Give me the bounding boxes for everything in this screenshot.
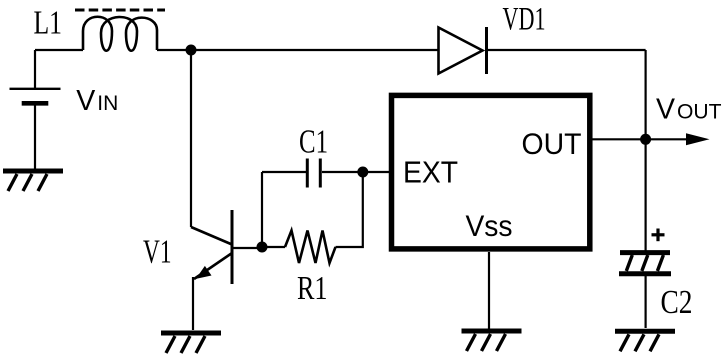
wire Vss pin to ground (488, 252, 490, 329)
node base junction (257, 242, 268, 253)
battery VIN top plate (10, 88, 61, 90)
capacitor C2 (619, 253, 671, 274)
wire C1 left (262, 171, 306, 173)
svg-text:Vss: Vss (466, 210, 513, 243)
wire R1 right up to EXT junction (336, 172, 363, 247)
svg-text:V: V (656, 94, 675, 126)
wire base junction up to C1 (261, 172, 263, 247)
ground C2 (615, 331, 675, 351)
svg-text:R1: R1 (297, 270, 328, 307)
svg-text:V: V (76, 85, 95, 117)
resistor R1 (285, 231, 336, 264)
svg-text:V1: V1 (143, 234, 172, 271)
wire R1 left (262, 246, 285, 248)
polarity plus C2 (652, 229, 665, 242)
wire battery top riser (34, 50, 36, 89)
inductor L1 core dashed line (75, 9, 165, 12)
IC U1 box (392, 95, 590, 249)
svg-text:EXT: EXT (403, 155, 458, 190)
wire node down to transistor collector (190, 50, 192, 227)
transistor V1 (191, 210, 262, 284)
svg-text:C2: C2 (661, 284, 693, 321)
node VOUT junction (640, 134, 651, 145)
ground Vss (462, 331, 522, 351)
arrow VOUT (646, 133, 710, 145)
capacitor C1 (307, 159, 320, 188)
ground V1 emitter (161, 333, 221, 353)
wire diode to right corner (487, 49, 646, 51)
wire emitter to ground (192, 277, 194, 330)
svg-text:L1: L1 (34, 5, 63, 42)
wire inductor to diode (157, 49, 438, 51)
wire right vertical down to C2 (644, 50, 646, 251)
wire C2 to ground (644, 276, 646, 328)
wire C1 right to EXT (322, 171, 390, 173)
wire top left to inductor (35, 49, 83, 51)
node EXT junction (357, 167, 368, 178)
diode VD1 (439, 27, 487, 74)
battery VIN bottom plate (22, 101, 49, 106)
svg-text:OUT: OUT (522, 128, 582, 161)
ground battery (3, 171, 63, 191)
inductor L1 (83, 17, 157, 51)
svg-text:C1: C1 (299, 124, 328, 161)
wire battery to ground (34, 104, 36, 169)
svg-text:OUT: OUT (677, 101, 722, 124)
node L1 output junction (186, 45, 197, 56)
svg-text:IN: IN (97, 92, 118, 115)
svg-text:VD1: VD1 (503, 2, 546, 38)
wire OUT pin (592, 138, 646, 140)
